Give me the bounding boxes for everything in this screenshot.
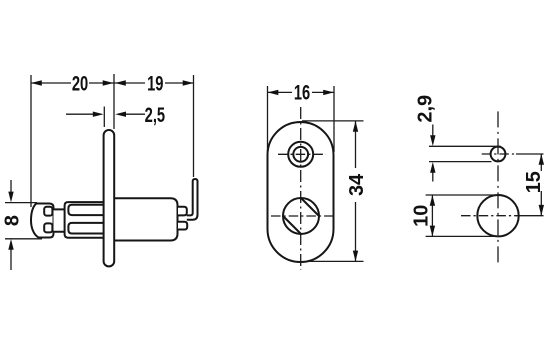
component: big hole 10 right view xyxy=(477,195,518,236)
node: arrowhead 10 up xyxy=(430,195,435,206)
node: big hole chord upper right xyxy=(301,198,319,216)
component: switch body xyxy=(114,198,178,240)
value label 34 xyxy=(346,173,368,196)
node: extension line 8 top xyxy=(5,202,37,204)
component: small hole 2,9 xyxy=(491,147,506,162)
component: mounting plate front view (stadium outline) xyxy=(268,122,334,262)
svg-text:19: 19 xyxy=(147,72,163,95)
svg-text:2,9: 2,9 xyxy=(414,95,436,123)
value label 2,9 xyxy=(414,95,436,123)
node: terminal boss upper xyxy=(178,207,187,216)
node: extension 16 left xyxy=(267,86,269,152)
node: cap hole upper xyxy=(44,207,52,216)
value label 2,5 xyxy=(145,104,165,127)
node: middle extension line (plate right edge) xyxy=(113,74,115,129)
svg-text:2,5: 2,5 xyxy=(145,104,165,127)
node: barrel slot lower xyxy=(68,223,104,234)
node: arrowhead 2,5 right xyxy=(115,112,126,117)
node: centerline top hole horizontal xyxy=(278,153,326,155)
node: arrowhead 10 down xyxy=(430,226,435,237)
wire: dim 34 line lower xyxy=(355,202,357,261)
node: arrowhead 34 bottom xyxy=(353,251,358,262)
node: arrowhead dim19 left xyxy=(115,80,126,85)
node: tangent line small hole bottom xyxy=(429,161,492,163)
value label 16 xyxy=(294,81,310,104)
node: arrowhead dim20 left xyxy=(31,80,42,85)
value label 19 xyxy=(147,72,163,95)
node: arrowhead dim20 right xyxy=(103,80,114,85)
node: extension 16 right xyxy=(333,86,335,152)
node: big hole chord lower left xyxy=(283,216,301,234)
wire: dim 2,9 upper tail xyxy=(432,125,434,139)
component: plunger neck xyxy=(54,209,66,231)
wire: dimension 2,5 leader right xyxy=(123,113,145,115)
node: centerline small hole vertical xyxy=(497,111,499,266)
node: extension line plate left edge xyxy=(103,107,105,128)
wire: dim 2,9 lower tail xyxy=(432,170,434,182)
node: arrowhead 2,9 down xyxy=(430,135,435,146)
node: left extension line of dim 20 xyxy=(30,75,32,207)
value label 20 xyxy=(72,72,88,95)
node: arrowhead dim19 right xyxy=(183,80,194,85)
value label 15 xyxy=(523,171,545,193)
node: centerline small hole horizontal xyxy=(482,153,517,155)
wire: dim 8 lower tail xyxy=(10,247,12,270)
svg-text:16: 16 xyxy=(294,81,310,104)
node: centerline big hole horizontal xyxy=(271,215,336,217)
node: arrowhead 16 left xyxy=(268,90,279,95)
value label 8 xyxy=(1,215,23,226)
node: top hole inner circle xyxy=(293,147,308,162)
node: centerline vertical of plate xyxy=(300,107,302,270)
component: plunger rubber cap xyxy=(31,204,54,238)
node: arrowhead 8 top xyxy=(8,192,13,203)
component: big hole circle xyxy=(283,198,319,234)
component: plunger barrel xyxy=(65,202,104,238)
wire: dimension 2,5 leader left xyxy=(66,113,96,115)
node: tangent line small hole top xyxy=(429,145,501,147)
svg-text:8: 8 xyxy=(1,215,23,226)
node: extension 34 top xyxy=(302,120,364,122)
node: arrowhead 34 top xyxy=(353,121,358,132)
wire: dim 8 upper tail xyxy=(10,180,12,194)
component: mounting plate side view xyxy=(104,130,115,266)
svg-text:10: 10 xyxy=(410,205,432,227)
node: tangent line big hole bottom xyxy=(426,235,499,237)
node: extension 34 bottom xyxy=(309,260,364,262)
node: cap hole lower xyxy=(44,223,52,232)
node: arrowhead 16 right xyxy=(323,90,334,95)
node: extension line 8 bottom xyxy=(5,238,42,240)
node: right extension line of dim 19 xyxy=(193,75,195,177)
node: tangent line big hole top xyxy=(426,194,499,196)
wire: dim 15 line upper xyxy=(540,154,542,171)
wire: dim 16 line xyxy=(268,91,335,93)
node: centerline big hole horizontal right view xyxy=(461,215,517,217)
wire: dim 10 line xyxy=(431,195,433,236)
svg-text:34: 34 xyxy=(346,173,368,196)
component: top hole outer circle xyxy=(288,142,313,167)
node: arrowhead 15 up xyxy=(539,154,544,165)
node: arrowhead 8 bottom xyxy=(8,239,13,250)
node: arrowhead 2,5 left xyxy=(93,112,104,117)
wire: dim 34 line upper xyxy=(355,121,357,168)
node: arrowhead 15 down xyxy=(539,205,544,216)
node: arrowhead 2,9 up xyxy=(430,162,435,173)
component: terminal blade bent up xyxy=(187,179,198,220)
node: terminal boss lower xyxy=(178,222,187,230)
node: barrel slot upper xyxy=(68,205,104,215)
svg-text:15: 15 xyxy=(523,171,545,193)
value label 10 xyxy=(410,205,432,227)
svg-text:20: 20 xyxy=(72,72,88,95)
wire: dimension line 20/19 top xyxy=(31,82,194,84)
wire: dim 15 line lower xyxy=(540,191,542,216)
